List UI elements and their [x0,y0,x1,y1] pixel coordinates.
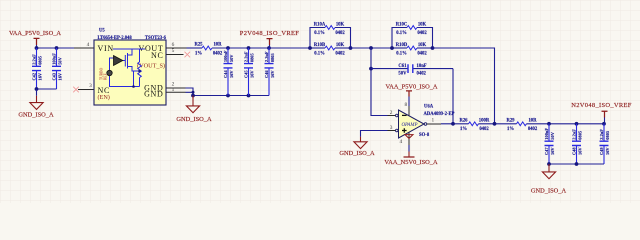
op-amp V- pin with arrow [400,133,414,152]
svg-text:0402: 0402 [417,72,427,77]
wire R25 to cap bank [212,46,310,50]
svg-text:16V: 16V [550,147,555,155]
wire R26 to R29 [479,122,517,126]
svg-text:C43: C43 [52,72,57,80]
wire feedback top to output [433,48,495,124]
svg-text:GND_ISO_A: GND_ISO_A [531,187,567,194]
svg-text:6: 6 [172,42,175,48]
svg-text:P2V048_ISO_VREF: P2V048_ISO_VREF [240,30,299,37]
svg-text:R25: R25 [194,43,203,48]
svg-text:C44: C44 [223,70,228,78]
svg-text:0805: 0805 [577,130,582,140]
U5 pin 3 stub [78,83,94,89]
U5 pin 6 stub [166,42,187,48]
svg-text:0402: 0402 [417,52,427,57]
svg-text:0805: 0805 [37,55,42,65]
svg-text:U6A: U6A [424,105,434,110]
svg-text:VIN: VIN [98,44,114,53]
svg-text:0.1%: 0.1% [314,31,325,36]
wire VAA rail to U5 pin 4 [35,46,74,50]
svg-text:16V: 16V [605,147,610,155]
power flag VAA_P5V0_ISO_A (op-amp V+) [385,84,437,116]
wire GND pins to bus [186,88,195,96]
svg-text:0805: 0805 [249,53,254,63]
capacitor C47 [544,124,555,164]
svg-text:2.2uF: 2.2uF [264,51,269,62]
no-connect X on pin 5 [185,52,191,58]
svg-text:3: 3 [89,83,92,89]
svg-text:OPAMP: OPAMP [402,123,418,128]
svg-text:GND: GND [144,90,163,99]
wire output bottom bus [547,162,604,166]
svg-text:2: 2 [390,110,393,116]
svg-text:1%: 1% [460,127,467,132]
resistor pair R10A / R10B [308,23,352,57]
wire inverting node down to op-amp pin 2 [369,48,395,116]
svg-text:(EN): (EN) [98,94,110,101]
svg-text:0805: 0805 [270,53,275,63]
svg-text:GND_ISO_A: GND_ISO_A [339,150,375,157]
svg-text:R10B: R10B [314,43,325,48]
resistor R25 [194,43,222,57]
svg-text:50V: 50V [550,131,555,139]
svg-text:16V: 16V [229,70,234,78]
ground GND_ISO_A (op-amp) [339,137,375,158]
svg-text:C48: C48 [572,147,577,155]
svg-text:100R: 100R [479,118,490,123]
svg-text:16V: 16V [249,70,254,78]
wire cap bottom bus [35,87,57,96]
svg-text:R10C: R10C [396,23,408,28]
svg-text:NC: NC [151,51,164,60]
wire middle bottom bus [191,94,269,98]
wire op-amp pin 3 to ground [361,131,388,137]
capacitor C49 [599,124,610,164]
svg-text:16V: 16V [37,72,42,80]
svg-text:10R: 10R [528,118,537,123]
ground GND_ISO_A (left) [18,96,54,119]
power flag P2V048_ISO_VREF [240,30,299,48]
svg-text:GND_ISO_A: GND_ISO_A [176,116,212,123]
svg-text:1: 1 [432,118,435,124]
U5 internal buffer triangle [114,56,123,66]
svg-text:C42: C42 [32,73,37,81]
svg-text:C46: C46 [264,70,269,78]
capacitor C42 [32,48,43,89]
svg-text:N2V048_ISO_VREF: N2V048_ISO_VREF [571,102,632,109]
svg-text:C49: C49 [599,147,604,155]
svg-text:1%: 1% [195,52,202,57]
svg-text:0.1%: 0.1% [396,52,407,57]
svg-text:0402: 0402 [479,127,489,132]
svg-text:2.2uF: 2.2uF [572,129,577,140]
svg-text:0402: 0402 [335,52,345,57]
svg-text:REF: REF [103,73,107,80]
svg-text:U5: U5 [99,29,105,34]
U5 internal reference circle [107,70,112,75]
svg-text:100nF: 100nF [223,50,228,62]
U5 pin 5 stub [166,48,184,55]
svg-text:100nF: 100nF [52,53,57,65]
svg-text:16V: 16V [57,72,62,80]
svg-text:50V: 50V [57,56,62,64]
capacitor C45 [244,48,255,96]
svg-text:10K: 10K [418,23,427,28]
svg-text:LT6654-EP-2.048: LT6654-EP-2.048 [98,36,133,41]
wire to inverting node [351,46,393,50]
svg-text:16V: 16V [270,70,275,78]
svg-text:0402: 0402 [528,127,538,132]
svg-text:4: 4 [400,139,403,145]
svg-text:C45: C45 [244,70,249,78]
svg-text:VAA_N5V0_ISO_A: VAA_N5V0_ISO_A [384,159,438,166]
svg-text:SO-8: SO-8 [419,133,430,138]
svg-text:0402: 0402 [335,31,345,36]
svg-text:GND_ISO_A: GND_ISO_A [18,111,54,118]
wire pin6 to R25 [187,47,203,49]
svg-text:8: 8 [405,102,408,108]
svg-text:R10D: R10D [396,43,408,48]
svg-text:10nF: 10nF [417,64,427,69]
svg-text:16V: 16V [577,147,582,155]
svg-text:50V: 50V [398,72,407,77]
svg-text:1%: 1% [507,127,514,132]
ground GND_ISO_A (right) [531,164,567,194]
op-amp U6A [390,105,455,138]
svg-text:0805: 0805 [605,130,610,140]
svg-text:ADA4099-2-EP: ADA4099-2-EP [424,112,455,117]
capacitor C46 [264,48,275,96]
svg-text:0402: 0402 [417,31,427,36]
svg-text:2.2uF: 2.2uF [244,51,249,62]
svg-text:0402: 0402 [213,52,223,57]
svg-text:0.1%: 0.1% [314,52,325,57]
svg-text:50V: 50V [229,54,234,62]
svg-text:10K: 10K [418,43,427,48]
power flag VAA_N5V0_ISO_A [384,152,438,166]
capacitor C43 [52,48,63,89]
U5 internal circuit [110,49,146,88]
U5 pin 1 stub [166,87,186,93]
svg-text:C61: C61 [398,64,407,69]
svg-text:C47: C47 [544,147,549,155]
U5 pin 4 stub [74,42,94,48]
resistor R29 [506,118,537,131]
wire R29 to output cap bank [527,122,606,126]
svg-text:2.2uF: 2.2uF [32,54,37,65]
wire C61 to output node [452,69,454,124]
ground GND_ISO_A (middle) [176,96,212,124]
resistor R26 [459,118,489,131]
svg-text:100nF: 100nF [544,128,549,140]
svg-text:10K: 10K [336,23,345,28]
no-connect X on pin 3 [73,87,79,93]
capacitor C48 [572,124,583,164]
power flag VAA_P5V0_ISO_A [9,30,61,48]
power flag N2V048_ISO_VREF [571,102,632,124]
svg-text:VAA_P5V0_ISO_A: VAA_P5V0_ISO_A [9,30,61,37]
svg-text:R10A: R10A [314,23,326,28]
svg-text:10K: 10K [336,43,345,48]
capacitor C44 [223,48,234,96]
svg-text:4: 4 [87,42,90,48]
svg-text:TSOT23-6: TSOT23-6 [145,36,167,41]
U5 pin 2 stub [166,82,186,88]
svg-text:VAA_P5V0_ISO_A: VAA_P5V0_ISO_A [385,84,437,91]
regulator U5 body [94,29,167,105]
svg-text:2.2uF: 2.2uF [599,129,604,140]
wire op-amp output [427,122,469,126]
svg-text:3: 3 [390,125,393,131]
svg-text:R26: R26 [459,118,468,123]
resistor pair R10C / R10D [390,23,434,57]
capacitor C61 [371,64,453,77]
svg-text:1: 1 [172,87,175,93]
svg-text:10R: 10R [213,43,222,48]
svg-text:5: 5 [172,48,175,54]
svg-text:0.1%: 0.1% [396,31,407,36]
svg-text:R29: R29 [506,118,515,123]
